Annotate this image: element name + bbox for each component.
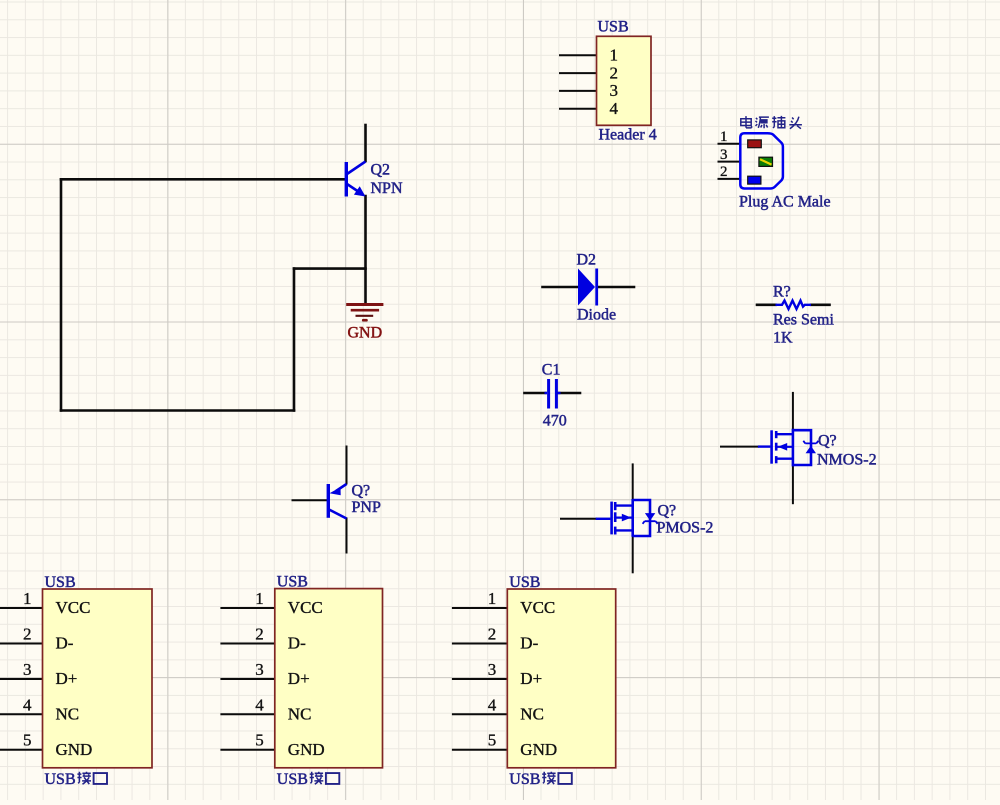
svg-text:PNP: PNP (352, 499, 381, 516)
NMOS body diode loop (793, 430, 811, 465)
wire USB2 pin4 (221, 713, 274, 715)
svg-text:GND: GND (56, 740, 93, 759)
diode cathode bar (595, 269, 598, 306)
pin AC plug 1 (719, 143, 741, 145)
PMOS gate bar (610, 502, 613, 535)
wire loop right vertical (293, 269, 296, 411)
PNP base bar (327, 484, 330, 518)
pin PNP base (293, 499, 329, 501)
口 (94, 773, 107, 784)
svg-text:R?: R? (773, 284, 791, 301)
接 (542, 772, 556, 785)
wire Q2 collector top (364, 125, 367, 161)
USB3 body (507, 589, 615, 768)
PMOS body diode loop (633, 500, 650, 536)
svg-text:2: 2 (255, 625, 264, 644)
svg-text:NC: NC (288, 705, 312, 724)
svg-text:Q?: Q? (352, 483, 371, 500)
NMOS main vertical (792, 429, 795, 467)
pin PMOS source bottom (632, 537, 634, 573)
svg-text:D+: D+ (56, 669, 78, 688)
wire USB2 pin3 (221, 678, 274, 680)
svg-text:D+: D+ (288, 669, 310, 688)
wire USB3 pin2 (453, 643, 507, 645)
PMOS gate lead (596, 518, 611, 520)
svg-text:D2: D2 (577, 251, 597, 268)
plug outline (740, 133, 783, 188)
svg-text:Diode: Diode (577, 307, 616, 324)
svg-text:VCC: VCC (56, 598, 91, 617)
wire USB1 pin5 (0, 749, 43, 751)
svg-text:NC: NC (56, 705, 80, 724)
wire USB1 pin4 (0, 713, 43, 715)
svg-text:4: 4 (610, 99, 619, 118)
pin PNP top (346, 447, 348, 484)
svg-text:4: 4 (488, 695, 497, 714)
wire loop left vertical (60, 179, 63, 410)
svg-text:4: 4 (255, 695, 264, 714)
svg-text:D-: D- (520, 634, 538, 653)
头 (789, 117, 802, 129)
svg-text:Header 4: Header 4 (599, 127, 657, 144)
svg-text:3: 3 (720, 147, 728, 163)
svg-text:470: 470 (543, 413, 567, 430)
svg-text:Q?: Q? (818, 432, 837, 449)
接 (77, 772, 91, 785)
svg-text:Plug AC Male: Plug AC Male (739, 194, 831, 211)
NMOS channel segments (775, 431, 778, 438)
svg-text:NC: NC (520, 705, 544, 724)
wire Q2 emitter to GND (364, 196, 367, 304)
svg-text:4: 4 (23, 695, 32, 714)
NMOS body diode (806, 446, 816, 454)
wire USB2 pin1 (221, 607, 274, 609)
pin header4 4 (560, 108, 597, 110)
svg-text:USB: USB (598, 19, 629, 36)
svg-text:GND: GND (288, 740, 325, 759)
PMOS body diode (645, 513, 655, 521)
svg-text:USB: USB (509, 771, 540, 788)
PMOS drain/source connects (615, 506, 633, 531)
plug earth pad (green/yellow) (759, 157, 773, 166)
transistor Q2 collector diagonal (347, 162, 366, 175)
svg-text:5: 5 (488, 731, 497, 750)
capacitor lead stubs (545, 392, 548, 394)
PMOS main vertical (631, 499, 634, 537)
wire USB3 pin4 (453, 713, 507, 715)
wire loop top horizontal to emitter (294, 267, 366, 270)
svg-text:3: 3 (610, 81, 619, 100)
svg-text:5: 5 (255, 731, 264, 750)
NMOS drain/source connects (776, 434, 793, 459)
pin NMOS gate (721, 446, 758, 448)
wire C1 right (559, 392, 581, 395)
wire R right (811, 303, 830, 306)
transistor Q2 emitter diagonal with arrow (347, 184, 359, 192)
resistor zigzag (776, 301, 812, 309)
svg-text:Q?: Q? (658, 502, 677, 519)
capacitor left plate (547, 379, 550, 409)
接 (310, 772, 324, 785)
ground bars (346, 303, 383, 306)
svg-text:D-: D- (56, 634, 74, 653)
diode triangle (578, 269, 595, 306)
svg-text:GND: GND (348, 325, 383, 342)
svg-text:2: 2 (488, 625, 497, 644)
电 (741, 116, 752, 128)
svg-text:D-: D- (288, 634, 306, 653)
pin AC plug 3 (719, 161, 741, 163)
svg-text:C1: C1 (542, 361, 561, 378)
svg-text:2: 2 (720, 164, 728, 180)
pin header4 1 (560, 54, 597, 56)
PMOS channel segments (614, 502, 617, 510)
label 电源插头 (drawn strokes) (741, 116, 802, 129)
header4 body (597, 36, 652, 125)
svg-text:3: 3 (23, 660, 32, 679)
svg-text:USB: USB (45, 574, 76, 591)
PMOS body arrow (615, 516, 633, 518)
pin PNP bottom (346, 519, 348, 553)
plug pin2 blue pad (748, 176, 761, 184)
pin PMOS drain top (632, 464, 634, 500)
pin AC plug 2 (719, 178, 741, 180)
pin NMOS source bottom (792, 466, 794, 504)
svg-text:GND: GND (520, 740, 557, 759)
svg-text:5: 5 (23, 731, 32, 750)
svg-text:Q2: Q2 (371, 162, 391, 179)
PNP collector diagonal (329, 510, 347, 519)
USB1 body (43, 589, 153, 768)
svg-text:3: 3 (255, 660, 264, 679)
wire Q2 base horizontal (61, 178, 346, 181)
wire D2 anode (543, 286, 579, 289)
USB2 body (275, 589, 383, 768)
口 (326, 773, 339, 784)
pin NMOS drain top (792, 393, 794, 430)
transistor Q2 base bar (345, 162, 348, 197)
口 (558, 773, 571, 784)
wire USB1 pin3 (0, 678, 43, 680)
svg-text:PMOS-2: PMOS-2 (657, 519, 714, 536)
svg-text:1: 1 (23, 589, 32, 608)
插 (772, 116, 785, 128)
NMOS body arrow (776, 446, 793, 448)
wire C1 left (525, 392, 546, 395)
svg-text:2: 2 (610, 63, 619, 82)
svg-text:NPN: NPN (371, 180, 403, 197)
svg-text:1: 1 (720, 129, 728, 145)
wire R left (757, 303, 776, 306)
NMOS gate lead (758, 445, 771, 447)
svg-text:1: 1 (488, 589, 497, 608)
NMOS gate bar (770, 430, 773, 463)
svg-text:1: 1 (610, 46, 619, 65)
svg-text:USB: USB (277, 574, 308, 591)
pin USB1 1 (0, 607, 43, 609)
svg-text:3: 3 (488, 660, 497, 679)
svg-text:VCC: VCC (288, 598, 323, 617)
wire USB1 pin2 (0, 643, 43, 645)
svg-text:USB: USB (45, 771, 76, 788)
svg-text:2: 2 (23, 625, 32, 644)
capacitor right plate (555, 379, 558, 409)
svg-text:1K: 1K (773, 330, 793, 347)
svg-text:USB: USB (277, 771, 308, 788)
svg-text:D+: D+ (520, 669, 542, 688)
svg-text:Res Semi: Res Semi (773, 311, 834, 328)
wire USB3 pin3 (453, 678, 507, 680)
源 (756, 117, 769, 128)
svg-text:1: 1 (255, 589, 264, 608)
pin PMOS gate (561, 518, 596, 520)
wire USB2 pin5 (221, 749, 274, 751)
svg-text:NMOS-2: NMOS-2 (817, 452, 877, 469)
plug pin1 red pad (748, 140, 762, 148)
pin header4 3 (560, 90, 597, 92)
wire D2 cathode (598, 286, 634, 289)
svg-text:USB: USB (509, 574, 540, 591)
wire USB3 pin5 (453, 749, 507, 751)
svg-text:VCC: VCC (520, 598, 555, 617)
wire USB2 pin2 (221, 643, 274, 645)
PNP emitter diagonal with arrow to base (336, 484, 347, 491)
wire loop bottom horizontal (61, 409, 294, 412)
pin header4 2 (560, 72, 597, 74)
wire USB3 pin1 (453, 607, 507, 609)
